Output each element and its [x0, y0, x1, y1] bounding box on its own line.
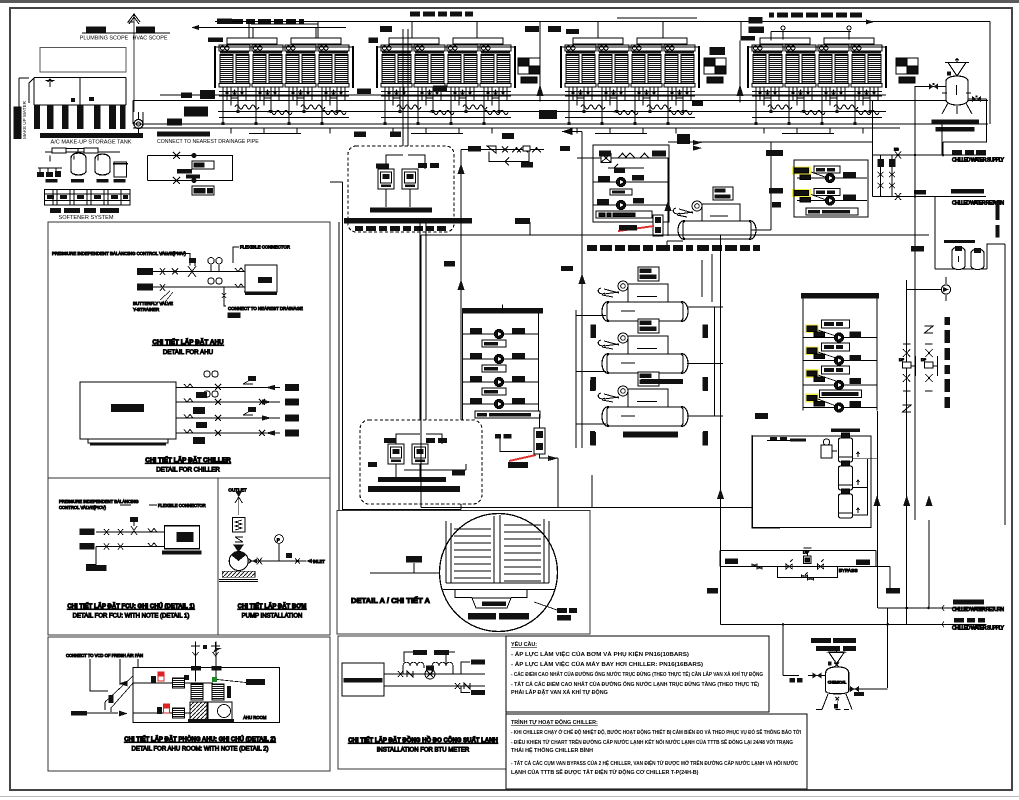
label bar under CH-3 [623, 432, 678, 438]
wire bypass run [720, 566, 890, 568]
svg-text:CHI TIẾT LẮP ĐẶT FCU: GHI CHÚ: CHI TIẾT LẮP ĐẶT FCU: GHI CHÚ (DETAIL 1) [67, 602, 194, 610]
wire bypass loop lower [778, 567, 838, 581]
cooling tower CT-4 group [748, 38, 886, 87]
wire bypass loop [489, 152, 529, 166]
tank body [34, 78, 126, 106]
softener vessel 1 [71, 153, 86, 175]
pump CDWP-2 [834, 356, 843, 365]
louver frame [446, 519, 549, 583]
label dashed strip left towers [222, 19, 304, 24]
wire pipes [384, 674, 485, 686]
wire riser arrow 2 [739, 41, 741, 103]
label black box [380, 26, 392, 32]
G_CPBOX1 : condenser pump control panel box [344, 29, 472, 232]
svg-text:DETAIL FOR AHU: DETAIL FOR AHU [163, 349, 213, 356]
wire drain loop [148, 156, 233, 181]
tank support columns [34, 105, 126, 129]
wire red pointer [618, 226, 654, 231]
wire riser down w/ arrow [460, 150, 462, 510]
svg-text:BB: BB [894, 148, 899, 152]
drain [86, 547, 96, 565]
svg-text:THÁI HỆ THỐNG CHILLER BÌNH: THÁI HỆ THỐNG CHILLER BÌNH [511, 746, 593, 754]
AHU coil box [245, 265, 277, 292]
tank top rect [40, 48, 126, 73]
G_HX : heat exchanger pump set [560, 101, 873, 283]
pump CHWP-4 [494, 399, 503, 408]
flex connectors [235, 268, 244, 288]
duct run upper [133, 682, 213, 684]
G_CHILLERS : main chillers [561, 235, 724, 507]
pump CDWP-3 [834, 380, 843, 389]
louver slats left [454, 529, 491, 578]
tank T-2 [839, 461, 853, 490]
meter circle [425, 669, 435, 679]
wire side risers [463, 314, 539, 420]
label thick bar [344, 218, 472, 224]
svg-text:FLEXIBLE CONNECTOR: FLEXIBLE CONNECTOR [158, 503, 206, 508]
pump CDWP-A [825, 173, 834, 182]
PICV [131, 521, 137, 535]
enclosure outline [753, 436, 872, 528]
chiller CH-1 [598, 267, 688, 321]
label boxes manifold mid [539, 110, 557, 119]
valve center w/ DP [804, 556, 812, 564]
wire top header main [215, 21, 872, 37]
wire left riser [330, 182, 343, 633]
wire dashes column A [945, 317, 951, 408]
svg-text:YÊU CẦU:: YÊU CẦU: [511, 640, 537, 648]
pump CDWP-1 [834, 333, 843, 342]
tank legs [816, 694, 852, 710]
wire side risers [803, 299, 877, 411]
svg-text:P: P [277, 538, 280, 543]
G_DETAIL1 : detail for AHU + chiller box [48, 222, 330, 478]
wire outlet loop [943, 99, 987, 156]
label dashes strip [587, 245, 760, 251]
G_GROUPDROPS : per-group drop piping [167, 22, 990, 145]
G_DETAILA : detail A circle [337, 511, 590, 635]
label bar [831, 429, 860, 432]
chiller body [702, 204, 740, 221]
svg-text:LẠNH CỦA TTTB SẼ ĐƯỢC TẮT ĐIỆN: LẠNH CỦA TTTB SẼ ĐƯỢC TẮT ĐIỆN TỪ ĐỘNG C… [511, 768, 699, 776]
label bars [50, 208, 61, 213]
G_BTU : BTU meter detail [338, 636, 506, 769]
wire right big box [752, 435, 780, 528]
G_PUMPS_R : right condenser pump column [755, 293, 879, 419]
wire feed from meter [404, 464, 466, 470]
svg-text:FLEXIBLE CONNECTOR: FLEXIBLE CONNECTOR [240, 245, 290, 250]
end arrows/boxes [265, 385, 275, 436]
valves [104, 529, 109, 550]
wire risers bottom [502, 305, 504, 414]
valve on top run [173, 152, 180, 159]
drain pan [472, 598, 511, 608]
G_EXPTANK_B : bottom expansion tank [783, 625, 888, 710]
tick marks [590, 380, 708, 445]
G_DRAIN : connect to nearest drainage [148, 132, 260, 196]
pump volute [229, 552, 248, 571]
G_TOWERMANIFOLD : piping below towers [133, 95, 988, 128]
svg-text:DP: DP [921, 358, 927, 362]
room rect [133, 668, 280, 723]
chiller CH-3 [598, 372, 688, 426]
gauges columns [204, 371, 210, 377]
valves [398, 671, 413, 677]
svg-text:- ÁP LỰC LÀM VIỆC CỦA MÁY BAY: - ÁP LỰC LÀM VIỆC CỦA MÁY BAY HƠI CHILLE… [511, 660, 703, 668]
svg-text:CHI TIẾT LẮP ĐẶT BƠM: CHI TIẾT LẮP ĐẶT BƠM [238, 602, 307, 610]
small fittings [286, 553, 292, 558]
wire bypass row [608, 164, 644, 172]
label bars [811, 638, 856, 651]
base pads [46, 179, 58, 183]
spring hanger [233, 518, 245, 533]
svg-text:- TẤT CẢ CÁC ĐIỂM CAO NHẤT CỦA: - TẤT CẢ CÁC ĐIỂM CAO NHẤT CỦA ĐƯỜNG ỐNG… [511, 680, 759, 688]
pointer + label boxes [534, 602, 557, 610]
G_CHILLER_S : upper small chiller CH-S [587, 142, 783, 251]
diagonal ducts [105, 676, 133, 712]
wire top header G4 [741, 21, 851, 40]
svg-text:A/C MAKE-UP STORAGE TANK: A/C MAKE-UP STORAGE TANK [50, 140, 131, 146]
G_LOOP : main distribution loop lines [330, 182, 929, 633]
G_PUMPS_C : center chilled water pump column [462, 305, 558, 508]
float valves [71, 98, 75, 102]
fresh air lines [90, 669, 120, 691]
panel CP-2 [402, 169, 418, 189]
wire scope divider line [133, 16, 135, 112]
label text strip [378, 477, 446, 482]
dosing pump [821, 445, 832, 458]
valve string loop [881, 155, 893, 197]
damper red 2 [164, 704, 170, 713]
svg-text:BYPASS: BYPASS [839, 568, 858, 574]
damper red 1 [158, 672, 164, 681]
flex [148, 529, 157, 547]
meter boxes [192, 161, 214, 169]
fill arrow [46, 79, 55, 87]
svg-text:DETAIL FOR AHU ROOM: WITH: DETAIL FOR AHU ROOM: WITH NOTE (DETAIL 2… [131, 747, 268, 753]
G_CPBOX2 : chilled pump control panel box [360, 222, 482, 504]
valve string B [925, 344, 938, 391]
G_TOWERS [215, 38, 886, 87]
base bar [932, 120, 979, 124]
device flow meter [534, 428, 545, 454]
svg-text:CHEMICAL: CHEMICAL [828, 681, 847, 685]
cooling tower CT-1 group [215, 38, 353, 87]
svg-text:PRESSURE INDEPENDENT BALANCING: PRESSURE INDEPENDENT BALANCING [59, 499, 139, 504]
svg-text:AHU ROOM: AHU ROOM [243, 715, 267, 720]
G_CWSR : chilled water supply/return top right [873, 87, 1005, 521]
label HVAC SCOPE [136, 27, 155, 33]
label plate long [596, 211, 652, 218]
tick marks [590, 325, 708, 446]
label black bar right [246, 679, 265, 685]
device flow meter [653, 215, 663, 236]
FCU box [164, 526, 199, 549]
label header bar [462, 308, 543, 314]
svg-text:CHILLED WATER SUPPLY: CHILLED WATER SUPPLY [952, 626, 1005, 632]
svg-text:PUMP INSTALLATION: PUMP INSTALLATION [242, 614, 303, 620]
svg-text:PHẢI LẮP ĐẶT VAN XẢ KHÍ TỰ ĐỘN: PHẢI LẮP ĐẶT VAN XẢ KHÍ TỰ ĐỘNG [511, 688, 608, 696]
vessel V-2 [971, 249, 984, 270]
label boxes [725, 559, 738, 565]
wire top header G1-G2 [196, 28, 346, 38]
wire FCU pipes [96, 532, 164, 547]
wire chiller pipes [176, 388, 280, 434]
tank T-3 [839, 489, 853, 518]
G_TOPPIPES : piping above towers [191, 12, 874, 55]
PICV symbols [243, 380, 253, 415]
pump CHWP-1 [494, 329, 503, 338]
center mullions [494, 515, 500, 583]
wire mid horizontals [342, 509, 461, 511]
wire main condenser header 2 [133, 123, 988, 125]
svg-text:INSTALLATION FOR BTU METER: INSTALLATION FOR BTU METER [377, 748, 470, 754]
AHU unit [190, 702, 207, 721]
wire riser to G3 top [617, 17, 697, 19]
filter box [191, 684, 203, 700]
strainers [193, 392, 207, 444]
drain w/ valve [222, 287, 226, 301]
svg-text:- TẤT CẢ CÁC CỤM VAN BYPASS CỦ: - TẤT CẢ CÁC CỤM VAN BYPASS CỦA 2 HỆ CHI… [511, 759, 798, 767]
wire red pointer [509, 455, 536, 461]
softener skid grid [45, 190, 131, 206]
base band [443, 589, 555, 591]
tank T-1 [839, 433, 853, 462]
svg-text:DETAIL FOR CHILLER: DETAIL FOR CHILLER [156, 467, 220, 474]
flow balancing device 1 [518, 58, 540, 83]
svg-text:CONNECT TO VCD OF FRESH AIR FA: CONNECT TO VCD OF FRESH AIR FAN [66, 653, 143, 658]
G_DETAIL2 : FCU + pump installation box [48, 478, 330, 635]
flow balancing device 3 [896, 58, 918, 83]
panel CP-3 [388, 444, 404, 464]
PICV valve [188, 261, 196, 277]
valve [502, 147, 541, 153]
svg-text:CONNECT TO NEAREST DRAINAGE PI: CONNECT TO NEAREST DRAINAGE PIPE [157, 139, 259, 145]
meter body rect [342, 663, 384, 696]
vessel V-1 [952, 247, 965, 270]
label boxes manifold left [181, 93, 192, 99]
svg-text:- ĐIỀU KHIỂN TỪ CHART TRÊN ĐƯỜ: - ĐIỀU KHIỂN TỪ CHART TRÊN ĐƯỜNG CẤP NƯỚ… [511, 738, 793, 746]
label bar under [468, 613, 529, 620]
label boxes [376, 164, 389, 169]
chiller CH-2 [598, 319, 688, 373]
wire panel risers [386, 29, 425, 169]
wire long bottom header [421, 235, 929, 508]
label plate [713, 187, 733, 200]
louver slats right [504, 525, 541, 581]
G_SCOPE : plumbing/hvac scope divider [80, 14, 170, 112]
wire right end riser [989, 22, 991, 125]
svg-text:Y-STRAINER: Y-STRAINER [133, 307, 159, 312]
label text strip [370, 208, 432, 213]
svg-text:CHI TIẾT LẮP ĐẶT ĐỒNG HỒ ĐO CÔ: CHI TIẾT LẮP ĐẶT ĐỒNG HỒ ĐO CÔNG SUẤT LẠ… [348, 736, 498, 744]
wire inlet left w/ valve [783, 625, 826, 676]
G_TOPVALVES : strainer + valve run right of cpbox1 [458, 146, 545, 510]
wire risers [794, 160, 868, 217]
wire risers [873, 87, 943, 521]
wire chiller left connections [576, 316, 606, 425]
chiller body rect [80, 382, 176, 439]
label plate [610, 189, 632, 195]
wire CHWS line [873, 154, 987, 156]
vcd boxes [151, 676, 156, 683]
check valve [235, 537, 243, 542]
label yellow tag [792, 167, 811, 175]
wire panel feeds [386, 189, 410, 207]
wire CHWR bottom [878, 607, 986, 609]
label header bar [801, 293, 879, 299]
svg-text:- CÁC ĐIỂM CAO NHẤT CỦA ĐƯỜNG: - CÁC ĐIỂM CAO NHẤT CỦA ĐƯỜNG ỐNG NƯỚC T… [511, 670, 763, 678]
flex duct hatched 1 [172, 678, 184, 688]
pump HXP-1 [593, 181, 669, 183]
wire sensor lines [404, 652, 455, 666]
G_RIGHTCOL : right column devices [874, 197, 1006, 553]
label thick bar [368, 486, 460, 492]
reducer [233, 544, 244, 552]
svg-text:DETAIL FOR FCU: WITH NOTE: DETAIL FOR FCU: WITH NOTE (DETAIL 1) [73, 614, 190, 620]
label black boxes right [749, 17, 763, 23]
wire inlet top [668, 101, 873, 197]
cooling tower CT-2 group [377, 38, 515, 87]
top gray bar [0, 0, 1019, 3]
panel CP-1 [378, 169, 394, 189]
gauge P [275, 535, 284, 544]
tank vessel [826, 667, 849, 694]
DP sensor [523, 146, 530, 151]
svg-text:MAKE UP WATER: MAKE UP WATER [22, 100, 27, 139]
softener vessel 2 [95, 154, 110, 175]
wire risers [582, 132, 668, 283]
G_SOFTENER : softener system [37, 148, 130, 221]
svg-text:INLET: INLET [313, 559, 325, 564]
G_NOTES : notes text blocks [506, 636, 807, 789]
label bar [936, 127, 975, 132]
risers in [196, 642, 216, 682]
tank legs [942, 93, 972, 114]
second filter [212, 684, 224, 700]
brine tank [114, 162, 127, 177]
label box [521, 162, 533, 168]
label bar A/C MAKE-UP STORAGE TANK [40, 133, 143, 138]
G_CHEMTANKS : chemical dosing tanks [753, 429, 878, 528]
wire frame verticals [720, 551, 876, 567]
pump CDWP-4 [834, 403, 843, 412]
label left [71, 711, 87, 716]
MAKE UP WATER label [14, 107, 22, 140]
svg-text:HVAC SCOPE: HVAC SCOPE [133, 36, 168, 42]
svg-text:SOFTENER SYSTEM: SOFTENER SYSTEM [58, 215, 113, 221]
wire top valve row [577, 157, 669, 159]
svg-text:CHILLED WATER SUPPLY: CHILLED WATER SUPPLY [952, 158, 1005, 164]
G_PUMPS_T : upper right pump pair [792, 160, 868, 217]
gauges [208, 258, 214, 264]
label boxes [384, 438, 396, 443]
wire sub header [160, 94, 886, 96]
green sensor [212, 677, 217, 682]
G_BYPASS : bottom bypass assembly [707, 548, 900, 594]
pump CHWP-3 [494, 377, 503, 386]
svg-text:BUTTERFLY VALVE: BUTTERFLY VALVE [133, 301, 173, 306]
tank vessel [946, 76, 968, 105]
valve on bottom run [173, 177, 180, 184]
valve butterfly S [160, 268, 165, 291]
label dashes [355, 226, 446, 231]
svg-text:DP: DP [899, 358, 905, 362]
wire AHU return pipe [137, 286, 233, 288]
scope flag symbol [128, 14, 140, 24]
wire inner loop [529, 222, 531, 235]
G_CWSR_B : bottom chilled water return/supply [721, 411, 1005, 688]
flex loops [403, 662, 424, 674]
float valve meter [134, 120, 143, 129]
wire left feeds [133, 101, 143, 125]
tank funnel [829, 652, 845, 664]
G_TANK : A/C make-up storage tank [14, 48, 144, 146]
wire CHWR line [873, 196, 987, 198]
label PLUMBING SCOPE [86, 27, 106, 33]
svg-text:CONNECT TO NEAREST DRAINAGE: CONNECT TO NEAREST DRAINAGE [228, 306, 303, 311]
label bar [157, 132, 210, 137]
valve inlet left [915, 86, 946, 88]
wire small tanks line [935, 197, 1005, 526]
valve manifold [45, 149, 120, 162]
valve string A [906, 280, 908, 552]
wire sub header lowest [133, 127, 900, 129]
pump small circulation [941, 285, 950, 294]
label box left [468, 146, 481, 152]
svg-text:CHILLED WATER RETURN: CHILLED WATER RETURN [952, 607, 1004, 613]
pump CDWP-B [825, 196, 834, 205]
wire chiller right connections [687, 307, 723, 416]
flex + valves on pipes [184, 384, 193, 433]
strainer [487, 146, 496, 153]
label bottom bar [475, 411, 540, 418]
wire sub header lower [218, 111, 886, 113]
dosing pumps [38, 168, 62, 176]
pump base [222, 571, 255, 577]
svg-text:DETAIL A / CHI TIẾT A: DETAIL A / CHI TIẾT A [351, 595, 431, 605]
wire right risers [715, 235, 721, 507]
svg-text:- KHI CHILLER CHẠY Ở CHẾ ĐỘ NH: - KHI CHILLER CHẠY Ở CHẾ ĐỘ NHIỆT ĐỘ, BƯ… [511, 728, 801, 736]
pump HXP-2 [593, 204, 669, 206]
wire tank connects [853, 459, 878, 515]
wire left arrow top [562, 129, 582, 135]
compressor [692, 201, 702, 211]
wire risers [396, 222, 442, 444]
wire outlet right w/ valve [849, 688, 888, 690]
pump CHWP-2 [494, 354, 503, 363]
wire connections [751, 142, 771, 230]
wire up arrows [874, 495, 933, 506]
svg-text:PLUMBING SCOPE: PLUMBING SCOPE [80, 36, 129, 42]
wire run [461, 149, 544, 151]
callout left [406, 556, 422, 563]
label thick dashes right [996, 201, 1000, 220]
wire riser arrow 1 [539, 22, 541, 102]
label dashed strip G2 [410, 12, 473, 17]
wire suction line [248, 558, 298, 565]
wire feed [19, 78, 34, 108]
detail circle [440, 514, 558, 632]
flow balancing device 2 [704, 58, 726, 83]
svg-text:CONTROL VALVE(PICV): CONTROL VALVE(PICV) [59, 505, 107, 510]
label bar below [806, 208, 858, 215]
valve outlet right [968, 98, 987, 100]
panel CP-4 [412, 444, 428, 464]
flex duct hatched 2 [172, 708, 184, 718]
label dashed strip G4 [769, 13, 862, 18]
wire connecting risers [721, 411, 930, 688]
